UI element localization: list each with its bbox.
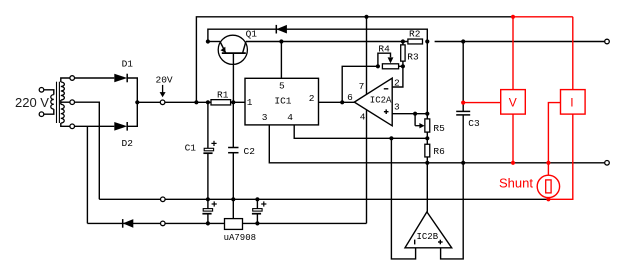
wire C1 top bbox=[207, 102, 209, 148]
C4 plus bbox=[212, 203, 217, 205]
wire center tap down bbox=[75, 102, 100, 199]
regulator uA7908 bbox=[225, 219, 243, 230]
wire feedback bbox=[342, 66, 378, 102]
arrow 20V bbox=[162, 85, 164, 93]
wire C2 bottom bbox=[232, 153, 234, 200]
wire secondary top stub bbox=[61, 78, 70, 82]
wire C1 bottom bbox=[207, 154, 209, 199]
transformer core bbox=[56, 82, 58, 123]
secondary terminal top bbox=[70, 76, 75, 81]
wire IC1 pin5 bbox=[280, 42, 282, 79]
wire IC2A pin7 bbox=[366, 17, 368, 95]
node C3 bottom bbox=[461, 161, 465, 165]
svg-text:D1: D1 bbox=[122, 59, 134, 70]
svg-text:C1: C1 bbox=[185, 142, 197, 153]
node feedback tap bbox=[340, 100, 344, 104]
wire R4 right bbox=[399, 65, 403, 67]
wire shunt upper bbox=[547, 163, 549, 176]
transistor Q1 body bbox=[218, 35, 247, 64]
node pin4-IC2Bminus bbox=[389, 136, 393, 140]
wire IC1 pin3 to output bbox=[269, 125, 604, 163]
wire to D1 bbox=[75, 77, 115, 79]
svg-text:R5: R5 bbox=[433, 123, 445, 134]
wire C2 top bbox=[232, 102, 234, 147]
wire V left bbox=[463, 102, 501, 104]
wire IC2A pin2 stub bbox=[392, 66, 403, 87]
wire IC2B output bbox=[426, 163, 428, 212]
capacitor C1 bbox=[204, 148, 213, 151]
node pin5 tap bbox=[279, 39, 283, 43]
C5 plus bbox=[261, 203, 266, 205]
capacitor C4 bbox=[203, 209, 212, 212]
wire I top bbox=[572, 17, 574, 90]
transistor Q1 base lead bbox=[232, 53, 234, 102]
wire R6 top lead bbox=[426, 138, 428, 144]
resistor R1 bbox=[211, 100, 231, 105]
wire secondary bottom stub bbox=[61, 123, 70, 126]
svg-text:R3: R3 bbox=[407, 51, 419, 62]
svg-text:7: 7 bbox=[359, 81, 365, 92]
wire bypass row bbox=[208, 29, 427, 41]
wire C3 upper bbox=[462, 42, 464, 112]
transistor Q1 collector diag bbox=[243, 42, 246, 54]
wire R1 to IC1 pin1 bbox=[231, 101, 245, 103]
wire shunt lower bbox=[547, 198, 549, 200]
wire R5 bottom lead bbox=[426, 132, 428, 138]
svg-text:3: 3 bbox=[262, 112, 268, 123]
node shunt top bbox=[546, 161, 550, 165]
node rail-C1leg bbox=[206, 100, 210, 104]
wire IC2B plus drop bbox=[441, 163, 464, 259]
svg-text:D2: D2 bbox=[122, 138, 134, 149]
wire primary top bbox=[44, 90, 54, 95]
node R4 left bbox=[376, 64, 380, 68]
node rectifier junction bbox=[135, 100, 139, 104]
wire R3 top lead bbox=[402, 42, 404, 45]
potentiometer R5 bbox=[425, 119, 430, 132]
wire to D2 bbox=[75, 125, 115, 127]
wire R5 top lead bbox=[426, 114, 428, 119]
terminal 20V bbox=[160, 100, 165, 105]
svg-text:I: I bbox=[570, 96, 573, 110]
diode D3 bypass bbox=[276, 25, 287, 34]
svg-text:4: 4 bbox=[287, 112, 293, 123]
node R6 bottom bbox=[425, 161, 429, 165]
terminal output bottom bbox=[605, 161, 610, 166]
svg-text:6: 6 bbox=[347, 92, 353, 103]
op-amp IC2B bbox=[405, 212, 452, 248]
node V-out bbox=[511, 161, 515, 165]
wire primary bottom bbox=[44, 109, 54, 114]
node wiper tap bbox=[413, 112, 417, 116]
wire V bottom bbox=[512, 114, 514, 163]
wire R2 right row bbox=[435, 41, 605, 43]
capacitor C5 bbox=[253, 209, 262, 212]
node pin7 tap bbox=[364, 15, 368, 19]
svg-text:3: 3 bbox=[394, 101, 400, 112]
wire 20V rail bbox=[137, 101, 211, 103]
svg-text:C3: C3 bbox=[468, 118, 480, 129]
wire IC1 pin4 bbox=[294, 125, 427, 138]
R5 wiper arrow bbox=[419, 123, 424, 128]
diode D1 bbox=[114, 74, 127, 83]
transistor Q1 bar bbox=[222, 52, 246, 54]
transistor Q1 emitter diag bbox=[220, 42, 226, 54]
secondary terminal center tap bbox=[70, 100, 75, 105]
IC2B minus bbox=[414, 240, 416, 245]
svg-text:uA7908: uA7908 bbox=[224, 233, 256, 243]
IC2B plus bbox=[438, 241, 443, 243]
terminal output top bbox=[605, 39, 610, 44]
meter I box bbox=[561, 90, 586, 115]
node pin3-R5 bbox=[425, 112, 429, 116]
wire R3 bottom lead bbox=[402, 61, 404, 66]
svg-text:IC1: IC1 bbox=[274, 95, 291, 106]
svg-text:1: 1 bbox=[247, 97, 253, 108]
R4 wiper arrow bbox=[388, 57, 394, 63]
wire Q1 emitter bbox=[208, 41, 220, 43]
svg-text:2: 2 bbox=[309, 93, 315, 104]
svg-text:5: 5 bbox=[279, 80, 285, 91]
node top rail red bbox=[511, 15, 515, 19]
resistor R2 bbox=[408, 39, 423, 44]
svg-text:R4: R4 bbox=[378, 44, 390, 55]
node neg-C4 bbox=[206, 221, 210, 225]
svg-text:4: 4 bbox=[360, 112, 366, 123]
potentiometer R4 bbox=[382, 64, 398, 69]
wire IC1 pin2 to opamp bbox=[319, 101, 355, 103]
svg-text:IC2A: IC2A bbox=[370, 95, 392, 105]
wire negative rail bbox=[87, 222, 366, 224]
transistor Q1 emitter arrow bbox=[221, 47, 226, 53]
node R2 right bbox=[425, 39, 429, 43]
wire collector row bbox=[246, 41, 408, 43]
node gnd-C1 bbox=[206, 197, 210, 201]
resistor R3 bbox=[401, 45, 405, 61]
transformer primary terminal bottom bbox=[39, 112, 44, 117]
diode D2 bbox=[114, 122, 127, 131]
C1 plus bbox=[211, 142, 216, 144]
wire IC2A pin3 stub bbox=[392, 113, 427, 115]
capacitor C3 bbox=[456, 110, 470, 112]
shunt R7 bbox=[537, 175, 559, 197]
wire R5 wiper bbox=[414, 114, 416, 126]
wire ground rail bbox=[99, 198, 548, 200]
svg-text:R6: R6 bbox=[433, 146, 445, 157]
node shunt gnd bbox=[546, 197, 550, 201]
node out-top tap bbox=[461, 39, 465, 43]
transformer primary winding bbox=[51, 95, 54, 109]
wire D1 to junction bbox=[127, 78, 137, 102]
node rail-C2leg bbox=[231, 100, 235, 104]
secondary terminal bottom bbox=[70, 124, 75, 129]
wire chain upper bbox=[426, 42, 428, 114]
svg-text:Q1: Q1 bbox=[246, 29, 258, 40]
transformer secondary winding lower bbox=[61, 104, 64, 123]
wire R6 bottom lead bbox=[426, 157, 428, 163]
wire negative branch down bbox=[86, 126, 88, 223]
svg-text:Shunt: Shunt bbox=[499, 176, 533, 191]
wire V top bbox=[512, 17, 514, 90]
wire R4 wiper loop bbox=[378, 53, 391, 66]
IC2A plus bbox=[384, 111, 389, 113]
resistor R6 bbox=[425, 144, 430, 157]
svg-text:V: V bbox=[509, 96, 517, 110]
wire IC2A pin4 stub bbox=[366, 110, 368, 223]
wire C3 lower bbox=[462, 115, 464, 163]
transformer secondary winding upper bbox=[61, 82, 65, 100]
node rail-topleg bbox=[194, 100, 198, 104]
node C3 top red bbox=[461, 101, 465, 105]
node neg-C5 bbox=[255, 221, 259, 225]
wire secondary tap stub bbox=[60, 100, 62, 104]
wire IC2B minus drop bbox=[391, 138, 415, 259]
svg-text:220 V: 220 V bbox=[15, 95, 49, 110]
svg-text:IC2B: IC2B bbox=[417, 232, 439, 242]
svg-text:C2: C2 bbox=[244, 146, 256, 157]
diode D4 bbox=[123, 219, 134, 228]
IC2A minus bbox=[384, 88, 389, 90]
wire I left bbox=[548, 103, 560, 163]
wire uA7908 input drop bbox=[232, 199, 234, 218]
wire top rail bbox=[196, 17, 513, 103]
capacitor C2 bbox=[228, 147, 238, 149]
op-amp IC2A bbox=[354, 78, 392, 126]
svg-text:R2: R2 bbox=[409, 29, 421, 40]
node R5-R6 bbox=[425, 136, 429, 140]
svg-text:R1: R1 bbox=[217, 89, 229, 100]
meter V box bbox=[501, 90, 526, 115]
terminal negative connector bbox=[161, 221, 166, 226]
node gnd-C5 bbox=[255, 197, 259, 201]
wire red top link bbox=[513, 16, 573, 18]
node bypass left bbox=[206, 39, 210, 43]
svg-text:20V: 20V bbox=[156, 75, 173, 86]
IC1 box bbox=[245, 78, 319, 125]
node R4-R3 junction bbox=[401, 64, 405, 68]
node R3 top bbox=[401, 39, 405, 43]
wire D2 to junction bbox=[127, 102, 137, 126]
terminal ground connector bbox=[161, 197, 166, 202]
node gnd-C2 bbox=[231, 197, 235, 201]
wire I bottom bbox=[548, 114, 572, 199]
transformer primary terminal top bbox=[39, 88, 44, 93]
